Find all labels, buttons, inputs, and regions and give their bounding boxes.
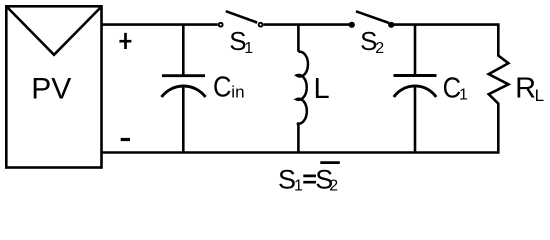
svg-text:1: 1	[459, 86, 468, 103]
svg-text:1: 1	[294, 178, 303, 195]
svg-text:2: 2	[375, 40, 384, 57]
svg-text:1: 1	[244, 40, 253, 57]
svg-text:C: C	[213, 72, 232, 104]
svg-text:L: L	[314, 73, 330, 105]
svg-text:in: in	[231, 82, 244, 101]
svg-text:L: L	[535, 86, 544, 105]
svg-text:R: R	[515, 72, 536, 104]
svg-text:2: 2	[329, 178, 338, 195]
svg-text:PV: PV	[31, 72, 71, 105]
